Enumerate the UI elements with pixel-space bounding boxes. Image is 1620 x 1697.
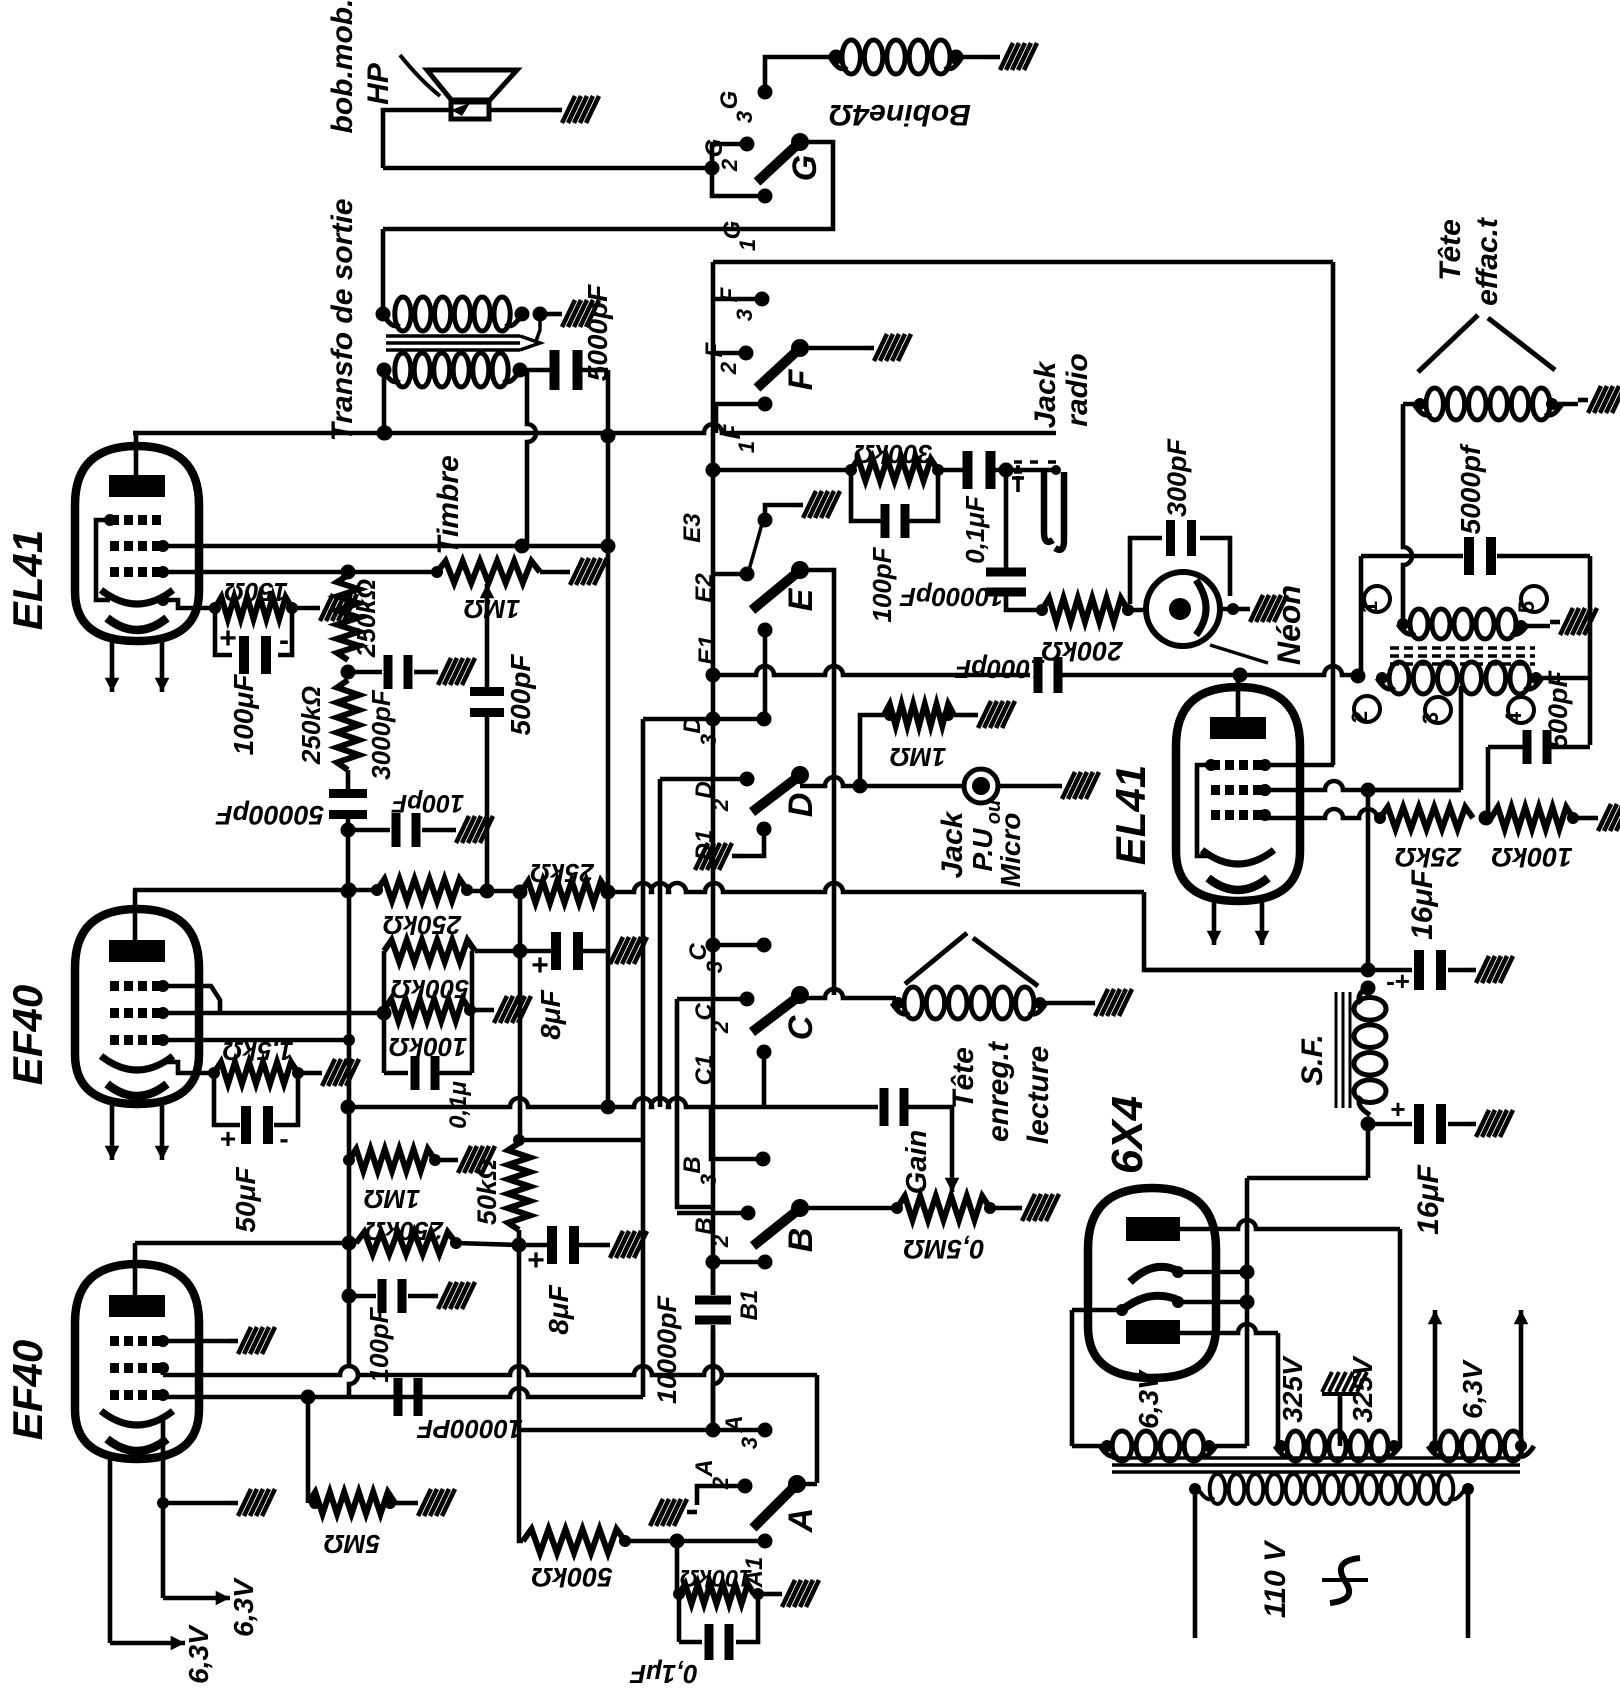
capacitor 8μF b xyxy=(519,1226,600,1264)
wire B1 xyxy=(706,1255,766,1270)
potentiometer 1MΩ Timbre xyxy=(431,561,540,583)
label B xyxy=(782,1228,820,1253)
label 250kΩ upper xyxy=(351,579,381,658)
svg-text:B1: B1 xyxy=(736,1290,763,1321)
wire 1M mid ground xyxy=(435,1158,448,1163)
bus A3 y1428 xyxy=(519,1423,760,1438)
label plus 8uF a xyxy=(531,949,549,982)
switch F contact F1 xyxy=(719,397,773,454)
svg-text:F: F xyxy=(701,341,728,357)
label Jack radio xyxy=(1029,353,1094,428)
EL41r grid dots xyxy=(1259,784,1271,821)
svg-text:Jack: Jack xyxy=(936,810,969,878)
capacitor 100pF par xyxy=(851,470,938,538)
switch C contact C2 xyxy=(691,992,755,1035)
svg-text:radio: radio xyxy=(1061,353,1094,426)
jack frame ground xyxy=(1012,467,1024,492)
svg-text:HP: HP xyxy=(362,62,395,105)
svg-text:E2: E2 xyxy=(691,573,718,603)
svg-text:-+: -+ xyxy=(1386,966,1410,996)
label 0,1μF xyxy=(960,495,990,564)
wire 3000pF ground xyxy=(414,670,428,675)
label 0,5MΩ xyxy=(903,1234,984,1264)
svg-text:0,5MΩ: 0,5MΩ xyxy=(903,1234,984,1264)
wire 1M ground xyxy=(954,713,968,718)
svg-text:B: B xyxy=(691,1217,718,1234)
neon lamp xyxy=(1122,572,1220,646)
svg-text:3: 3 xyxy=(1418,712,1443,724)
svg-text:3: 3 xyxy=(732,111,757,123)
svg-text:1MΩ: 1MΩ xyxy=(364,1184,420,1214)
ground 100k xyxy=(484,996,531,1023)
svg-text:1: 1 xyxy=(1357,601,1382,613)
svg-text:3: 3 xyxy=(737,1437,762,1449)
EF40 mid grid1 merge xyxy=(163,986,220,1013)
winding 6,3V right xyxy=(1428,1431,1534,1461)
svg-text:3: 3 xyxy=(696,1174,721,1186)
svg-text:A: A xyxy=(691,1459,718,1477)
svg-text:8μF: 8μF xyxy=(535,989,566,1039)
label 5000pF xyxy=(582,284,613,381)
svg-text:50μF: 50μF xyxy=(230,1167,261,1233)
gain wiper xyxy=(945,1110,960,1192)
resistor 250kΩ lower xyxy=(337,680,359,770)
resistor 25kΩ xyxy=(521,881,608,903)
label Timbre xyxy=(432,455,465,554)
wire x349 segment2 xyxy=(349,1040,358,1397)
label Transfo de sortie xyxy=(326,199,359,442)
wire E3 ground xyxy=(765,505,793,520)
resistor 300kΩ xyxy=(845,459,944,481)
capacitor 50μF xyxy=(214,1073,298,1154)
label SF xyxy=(1296,1034,1329,1086)
label EF40 mid xyxy=(4,985,51,1085)
capacitor 5000pF osc xyxy=(1461,537,1590,575)
switch E contact E2 xyxy=(691,567,755,603)
svg-text:0,1μF: 0,1μF xyxy=(960,495,990,564)
switch D arm xyxy=(752,766,809,812)
wire bus1375 corner xyxy=(815,1375,820,1483)
tube 6X4 plates xyxy=(1126,1217,1180,1344)
junction below 50000pF xyxy=(341,817,356,899)
svg-text:EL41: EL41 xyxy=(1107,765,1154,865)
wire speaker left loop xyxy=(383,110,451,168)
label 5MΩ xyxy=(324,1529,380,1559)
tube EF40 bot electrodes xyxy=(101,1295,173,1451)
resistor 500kΩ A xyxy=(523,1529,631,1553)
bus y675 right xyxy=(1060,666,1366,684)
svg-text:Gain: Gain xyxy=(901,1130,933,1194)
wire gain ground xyxy=(990,1206,1012,1211)
wire bus to wiper xyxy=(903,1107,952,1110)
label 250kΩ lower2 xyxy=(365,1216,444,1246)
ground 100pF2 xyxy=(428,1282,475,1309)
wire x1368 xyxy=(1361,790,1376,978)
switch A contact A2 xyxy=(691,1459,753,1493)
bus y890 left xyxy=(133,888,377,893)
EL41r cathode wire xyxy=(1265,809,1380,818)
ground 16uF b xyxy=(1466,1110,1513,1137)
svg-text:C: C xyxy=(691,1003,718,1021)
wire 250k to x519 xyxy=(456,1243,519,1245)
svg-text:EF40: EF40 xyxy=(4,1340,51,1440)
wire G1 branch xyxy=(712,168,760,196)
EL41r heater leads xyxy=(1207,901,1270,945)
svg-text:10000PF: 10000PF xyxy=(416,1414,523,1444)
label 25kΩ xyxy=(530,858,595,888)
wire 5M ground xyxy=(395,1501,408,1506)
switch A arm xyxy=(753,1475,806,1528)
jack radio contacts xyxy=(1014,462,1064,550)
EL41r grid bracket xyxy=(1197,759,1217,856)
tube EL41 left xyxy=(75,446,199,641)
svg-text:8μF: 8μF xyxy=(543,1284,574,1334)
capacitor 50000pF xyxy=(329,789,367,819)
ground 5M xyxy=(408,1489,455,1516)
wire x349 down xyxy=(342,883,357,1041)
wire mains left xyxy=(1193,1489,1198,1638)
svg-text:C: C xyxy=(782,1015,820,1040)
switch E contact E1 xyxy=(694,623,773,665)
svg-text:6,3V: 6,3V xyxy=(228,1577,259,1637)
wire x519 upper xyxy=(518,892,523,1143)
wire cath riser xyxy=(1245,1178,1250,1446)
label 8μF a xyxy=(535,989,566,1039)
wire transfo prim right xyxy=(520,370,536,546)
svg-text:G: G xyxy=(716,91,743,110)
label EF40 bot xyxy=(4,1340,51,1440)
winding primary xyxy=(1189,1474,1474,1504)
svg-text:2: 2 xyxy=(1347,711,1372,723)
svg-text:1MΩ: 1MΩ xyxy=(464,594,520,624)
label 500kΩ A xyxy=(531,1562,612,1592)
ground 1M mid xyxy=(448,1146,495,1173)
label 1MΩ D xyxy=(890,742,946,772)
label 100pF par xyxy=(867,546,897,622)
wire 5M riser xyxy=(306,1397,311,1503)
wire 890 mid xyxy=(467,885,528,900)
wire 100kA ground xyxy=(758,1592,772,1597)
label 5000pF osc xyxy=(1455,443,1486,534)
label 1000pF xyxy=(954,654,1045,684)
svg-text:E1: E1 xyxy=(694,635,721,664)
svg-text:25kΩ: 25kΩ xyxy=(530,858,595,888)
label 16μF b xyxy=(1412,1164,1445,1234)
capacitor 5000pF xyxy=(527,350,608,390)
capacitor 10000pF bus xyxy=(880,1088,909,1126)
svg-text:5: 5 xyxy=(1514,601,1539,613)
resistor 25kΩ r xyxy=(1374,807,1473,829)
ground F xyxy=(864,334,911,361)
tube 6X4 xyxy=(1088,1188,1216,1378)
wire w2 right xyxy=(1536,676,1590,681)
svg-text:500pF: 500pF xyxy=(505,654,536,736)
svg-text:2: 2 xyxy=(708,1234,733,1248)
label 16μF a xyxy=(1406,869,1439,939)
speaker HP xyxy=(427,70,517,119)
ground speaker xyxy=(552,96,599,123)
wire D3 row xyxy=(643,712,760,727)
capacitor 0,1μF A xyxy=(679,1594,758,1660)
label 200kΩ xyxy=(1041,636,1123,666)
label 50kΩ xyxy=(472,1159,502,1225)
capacitor 3000pF xyxy=(384,655,413,689)
wire C2 feed x677 xyxy=(677,999,714,1207)
head roof xyxy=(905,933,1038,986)
svg-text:2: 2 xyxy=(716,361,741,375)
capacitor 10000pF low xyxy=(394,1378,423,1416)
svg-text:10000pF: 10000pF xyxy=(652,1294,682,1404)
tube 6X4 cathodes xyxy=(1116,1266,1184,1316)
ground 16uF a xyxy=(1466,956,1513,983)
ground timbre xyxy=(560,558,607,585)
resistor 200kΩ xyxy=(1042,598,1128,622)
svg-text:16μF: 16μF xyxy=(1406,869,1439,939)
svg-text:Micro: Micro xyxy=(995,813,1026,888)
label Néon xyxy=(1210,585,1307,665)
svg-text:D: D xyxy=(679,716,706,733)
switch B contact B2 xyxy=(691,1206,756,1249)
wire 5000pF to bus xyxy=(601,370,616,1115)
coil Bobine 4ohm xyxy=(829,40,964,74)
svg-text:Néon: Néon xyxy=(1271,585,1307,665)
EF40 bot cathode ground xyxy=(157,1417,228,1509)
bus B+ y433 xyxy=(133,424,1056,441)
label 100pF 2 xyxy=(364,1306,394,1382)
svg-text:EF40: EF40 xyxy=(4,985,51,1085)
switch F contact F3 xyxy=(716,286,770,321)
label EL41 xyxy=(4,530,51,630)
svg-text:1000pF: 1000pF xyxy=(954,654,1045,684)
wire 150 to ground xyxy=(292,606,310,611)
capacitor 16μF a xyxy=(1368,950,1466,996)
svg-text:F: F xyxy=(782,368,820,390)
wire to 100pF xyxy=(348,828,390,833)
wire D2 feed x660 xyxy=(658,779,663,1107)
winding 1 xyxy=(1397,609,1528,639)
box top edge y262 xyxy=(713,260,1333,265)
wire x519 lower xyxy=(517,1245,522,1430)
bus y1107 xyxy=(341,1098,879,1115)
ground tete enreg xyxy=(1085,989,1132,1016)
svg-text:Jack: Jack xyxy=(1029,360,1062,428)
svg-text:500pF: 500pF xyxy=(1543,669,1573,749)
label 10000pF low xyxy=(416,1414,523,1444)
wire E2 rail xyxy=(713,572,747,577)
svg-text:50000pF: 50000pF xyxy=(214,800,324,830)
svg-text:100kΩ: 100kΩ xyxy=(389,1032,467,1062)
wire G2 branch xyxy=(712,144,741,168)
svg-text:D: D xyxy=(782,793,820,818)
coil tete enreg xyxy=(892,987,1046,1019)
winding 6,3V left xyxy=(1100,1431,1247,1461)
wire mains right xyxy=(1466,1489,1471,1638)
wire jack pu ground xyxy=(998,784,1052,789)
svg-text:effac.t: effac.t xyxy=(1471,216,1504,306)
wire grid row3 mid xyxy=(163,1034,355,1046)
wire bus corner to EL41 plate xyxy=(133,433,136,475)
svg-text:C1: C1 xyxy=(691,1055,718,1086)
svg-text:Timbre: Timbre xyxy=(432,455,465,554)
label 100kΩ xyxy=(389,1032,467,1062)
wire tap3 xyxy=(1368,686,1461,790)
label 150Ω xyxy=(224,577,288,607)
wire G3 up xyxy=(765,57,836,92)
switch D contact D3 xyxy=(679,712,772,747)
svg-text:250kΩ: 250kΩ xyxy=(365,1216,444,1246)
osc core xyxy=(1390,648,1535,664)
wire F3 xyxy=(713,297,757,302)
wire 100k ground xyxy=(464,1004,484,1016)
heater 6,3V a xyxy=(163,1503,259,1637)
label F xyxy=(782,368,820,390)
wire neon right xyxy=(1220,603,1240,615)
label circ2 xyxy=(1347,696,1380,723)
svg-text:100pF: 100pF xyxy=(391,789,464,817)
switch G contact G2 xyxy=(701,137,755,173)
label 1,5kΩ xyxy=(223,1036,294,1066)
rail x713 xyxy=(711,262,716,1295)
label C xyxy=(782,1015,820,1040)
switch G contact G1 xyxy=(719,189,773,252)
jack PU xyxy=(964,769,998,803)
rail x834 arms xyxy=(832,574,837,995)
wire 6X4 plate2 xyxy=(1180,1324,1278,1333)
wire E1 to D3 xyxy=(763,630,768,718)
label circ4 xyxy=(1501,697,1534,724)
svg-text:+: + xyxy=(220,1123,236,1154)
svg-text:16μF: 16μF xyxy=(1412,1164,1445,1234)
svg-text:B: B xyxy=(679,1156,706,1173)
wire plate bus y1243 xyxy=(135,1241,349,1246)
svg-text:325V: 325V xyxy=(1347,1355,1378,1423)
svg-text:3000pF: 3000pF xyxy=(366,689,396,780)
switch A contact A3 xyxy=(721,1415,773,1449)
label 10000pF jack xyxy=(899,582,1004,612)
ground jack PU xyxy=(1052,772,1099,799)
svg-text:+: + xyxy=(219,622,237,655)
wire 250k to 50000pF xyxy=(346,770,351,791)
capacitor 100pF 2 xyxy=(349,1279,407,1313)
wire to 200k xyxy=(1006,593,1048,616)
label 100kΩ r xyxy=(1491,842,1572,872)
rail x1333 right xyxy=(1331,262,1336,765)
wire 6X4 heater left xyxy=(1072,1310,1122,1446)
ground transfo xyxy=(552,300,599,327)
wire cathode EL41 xyxy=(163,600,221,614)
wire 500pF down to bus xyxy=(480,715,495,899)
svg-text:A: A xyxy=(721,1415,748,1433)
wire speaker right xyxy=(489,108,552,113)
wire D3 feed x643 xyxy=(641,719,646,1397)
bus y1397 xyxy=(163,1388,643,1405)
label 0,1μF block xyxy=(445,1081,472,1129)
resistor 250kΩ coupling xyxy=(371,879,473,901)
wire 100kr ground xyxy=(1573,816,1588,821)
bus to 16uF xyxy=(1144,968,1368,973)
wire to transfo primary xyxy=(376,229,391,322)
switch F contact F2 xyxy=(701,341,754,375)
wire 500k right xyxy=(475,944,528,959)
label 6X4 xyxy=(1103,1096,1152,1174)
wire pot to ground xyxy=(540,570,560,575)
wire 50k top east xyxy=(513,1134,643,1146)
capacitor 1000pF xyxy=(1034,657,1063,693)
label 500kΩ xyxy=(391,974,469,1004)
ground 150Ω xyxy=(310,594,357,621)
ac symbol xyxy=(1322,1558,1368,1603)
svg-text:S.F.: S.F. xyxy=(1296,1034,1329,1086)
wire D1 ground xyxy=(742,829,764,856)
tube EL41 right electrodes xyxy=(1202,717,1274,890)
label 25kΩ r xyxy=(1395,842,1462,872)
svg-text:4: 4 xyxy=(1501,711,1526,724)
switch B contact B1 xyxy=(736,1255,773,1321)
label 10000pF B1 xyxy=(652,1294,682,1404)
capacitor 100μF xyxy=(215,608,292,674)
choke SF xyxy=(1336,981,1386,1132)
ground E3 xyxy=(793,491,840,518)
svg-text:10000pF: 10000pF xyxy=(899,582,1004,612)
svg-text:100μF: 100μF xyxy=(228,674,259,756)
pot wiper arrow xyxy=(480,584,495,640)
ground A2 xyxy=(650,1499,697,1526)
svg-text:3: 3 xyxy=(732,309,757,321)
transfo primary coil xyxy=(377,353,528,387)
svg-text:100pF: 100pF xyxy=(867,546,897,622)
svg-text:6X4: 6X4 xyxy=(1103,1096,1152,1174)
resistor 150Ω xyxy=(215,597,298,619)
wire B arm to gain xyxy=(800,1206,897,1211)
wire grid y572 xyxy=(163,565,437,580)
wire A arm to rail xyxy=(797,1482,817,1487)
ground w1 xyxy=(1550,608,1597,635)
ground 100pF xyxy=(446,816,493,843)
label 1MΩ timbre xyxy=(464,594,520,624)
EL41r plate lead xyxy=(1236,675,1241,728)
svg-text:EL41: EL41 xyxy=(4,530,51,630)
label A xyxy=(782,1508,820,1534)
svg-text:+: + xyxy=(527,1244,545,1277)
svg-text:-: - xyxy=(279,1123,288,1154)
svg-text:A: A xyxy=(782,1508,820,1534)
label 6,3V left xyxy=(1133,1369,1164,1429)
capacitor 10000pF B1 xyxy=(695,1262,731,1428)
junction 250k chain xyxy=(341,665,356,680)
tube EL41 right xyxy=(1176,687,1300,901)
wire transfo sec to ground xyxy=(540,312,552,317)
ground 3000pF xyxy=(428,658,475,685)
grid bus EF40mid xyxy=(222,1006,392,1021)
winding 2 xyxy=(1376,662,1542,694)
svg-text:-: - xyxy=(279,624,289,657)
label 3000pF xyxy=(366,689,396,780)
svg-text:lecture: lecture xyxy=(1022,1046,1055,1144)
svg-text:Tête: Tête xyxy=(947,1047,980,1109)
wire sf node down xyxy=(1247,1124,1368,1178)
switch E link line xyxy=(749,524,762,570)
ground gain xyxy=(1012,1194,1059,1221)
svg-text:E: E xyxy=(782,587,820,611)
switch C arm xyxy=(752,986,809,1032)
wire B2 xyxy=(677,1211,748,1216)
switch D contact D1 xyxy=(691,822,772,861)
heater 6,3V b xyxy=(110,1459,214,1684)
osc box top xyxy=(1361,554,1461,559)
wire 100pF2 ground xyxy=(408,1294,428,1299)
label 325V a xyxy=(1277,1355,1308,1423)
resistor 100kΩ xyxy=(384,999,470,1021)
